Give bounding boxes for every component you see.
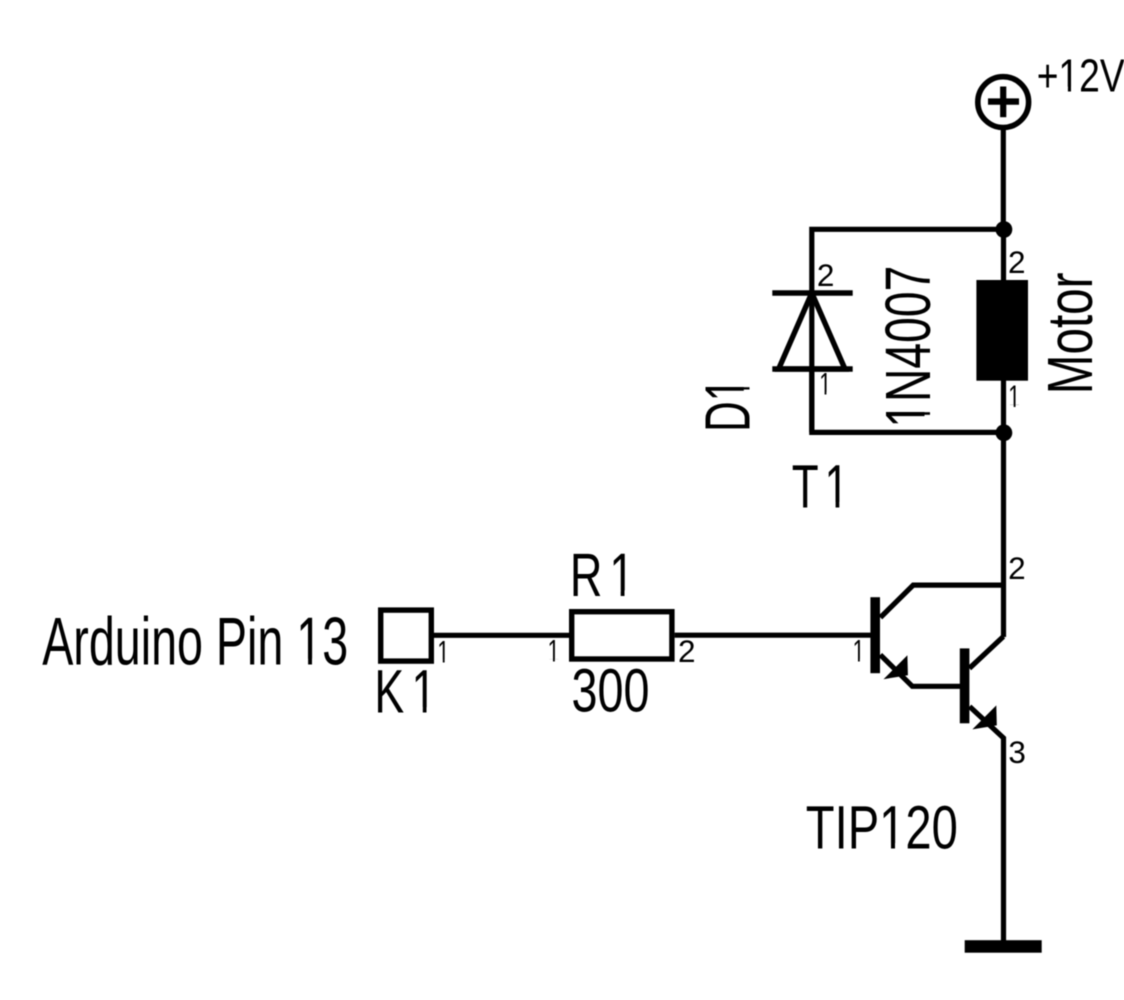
transistor T1 Q2 base bar [960, 648, 970, 723]
diode D1 cathode bar [772, 290, 852, 295]
svg-text:3: 3 [1008, 734, 1026, 770]
wire top horizontal with diode branch [812, 229, 1004, 432]
svg-text:1: 1 [853, 633, 865, 669]
serif eraser pin1 K1pin [438, 660, 443, 664]
Q2 emitter arrow [972, 705, 996, 729]
svg-text:1: 1 [437, 633, 449, 669]
connector K1 square [381, 610, 432, 661]
node junction top [996, 221, 1013, 238]
serif eraser D1rot [744, 390, 751, 400]
wire R1 to base [675, 633, 872, 638]
svg-text:1: 1 [609, 541, 634, 609]
power symbol +12V [978, 77, 1029, 128]
serif eraser pin1 motor [1009, 405, 1014, 409]
svg-text:2: 2 [817, 257, 835, 293]
ground [965, 940, 1042, 953]
diode D1 triangle [779, 293, 845, 369]
svg-text:1: 1 [412, 658, 437, 726]
wire K1 to R1 [434, 633, 570, 638]
serif eraser K1 [414, 707, 423, 714]
node junction bottom [996, 424, 1013, 441]
serif eraser pin1 diode [820, 392, 825, 396]
wire motor pin1 [1001, 379, 1006, 434]
serif eraser pin1 Q1 [853, 659, 858, 663]
svg-text:T: T [792, 453, 819, 521]
svg-text:TIP120: TIP120 [806, 794, 958, 862]
wire Q2 collector [969, 637, 1003, 669]
wire Q2 emitter [970, 707, 1004, 942]
wire power stem [1001, 128, 1006, 231]
svg-text:2: 2 [678, 633, 696, 669]
svg-text:2: 2 [1008, 550, 1026, 586]
svg-text:1: 1 [819, 366, 831, 402]
svg-text:1: 1 [548, 633, 560, 669]
serif eraser pin1 R1pin [548, 659, 553, 663]
svg-text:1N4007: 1N4007 [872, 266, 944, 428]
motor body [976, 280, 1028, 381]
transistor T1 Q1 base bar [870, 597, 880, 673]
serif eraser +12V [1060, 87, 1068, 93]
svg-text:Arduino Pin 13: Arduino Pin 13 [42, 603, 348, 679]
svg-text:D1: D1 [691, 378, 763, 432]
svg-text:1: 1 [825, 453, 849, 521]
svg-text:Motor: Motor [1034, 273, 1106, 395]
Q1 emitter arrow [884, 655, 908, 679]
serif eraser Arduino13 [299, 659, 308, 666]
wire Q1 collector [880, 585, 1003, 617]
svg-text:2: 2 [1008, 244, 1026, 280]
svg-text:+12V: +12V [1037, 49, 1124, 101]
serif eraser T1 [827, 502, 836, 509]
serif eraser 1N4007rot [925, 415, 932, 425]
svg-text:300: 300 [572, 657, 650, 725]
svg-text:1: 1 [1008, 378, 1020, 414]
serif eraser R1 [612, 590, 621, 597]
serif eraser TIP120 [882, 843, 891, 850]
svg-text:R: R [570, 541, 603, 609]
diode D1 anode bar [772, 366, 852, 371]
wire collector vertical [1001, 432, 1006, 637]
wire motor pin2 [1001, 229, 1006, 282]
wire Q1 emitter [880, 655, 960, 687]
wire bottom horizontal with diode branch [812, 369, 1004, 432]
svg-text:K: K [374, 658, 404, 726]
resistor R1 body [572, 612, 672, 659]
